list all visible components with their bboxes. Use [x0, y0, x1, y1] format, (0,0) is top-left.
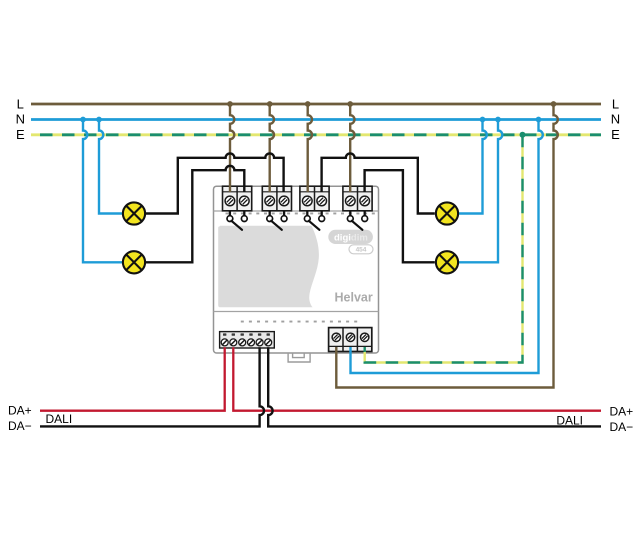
module U1 DIN clip: [288, 353, 310, 362]
terminal block TB4: [343, 186, 372, 211]
wire earth feed yellow base (E right to module input): [365, 135, 523, 363]
module U1 body: [214, 186, 379, 353]
wire black switched D (TB4 to lamp LB2): [365, 170, 435, 262]
wire DALI black DA- right: [268, 347, 601, 426]
svg-text:N: N: [16, 112, 25, 127]
wire earth feed green dashes: [365, 135, 523, 363]
wire blue left A (N to lamp LA2): [83, 120, 123, 263]
terminal block TB3: [300, 186, 329, 211]
wire E bus (green dashes): [31, 133, 601, 136]
svg-text:L: L: [612, 96, 619, 111]
svg-text:DALI: DALI: [46, 412, 73, 426]
svg-text:digidim: digidim: [334, 233, 368, 244]
lamp LB1: [436, 202, 458, 224]
svg-text:E: E: [611, 127, 620, 142]
wire blue right C (N to lamp LB1): [458, 120, 487, 214]
wire brown drop 4 (L to TB4): [350, 104, 354, 192]
svg-text:DA−: DA−: [610, 420, 634, 434]
junction dot L/brown feed: [551, 101, 557, 107]
wire brown drop 3 (L to TB3): [308, 104, 312, 192]
svg-text:DALI: DALI: [556, 413, 583, 427]
wire brown drop 2 (L to TB2): [270, 104, 274, 192]
junction dot N/blueA: [80, 117, 86, 123]
svg-text:DA−: DA−: [8, 419, 32, 433]
wire blue right D (N to lamp LB2): [458, 120, 502, 263]
relay contact K1: [227, 211, 247, 230]
wire brown mains feed (L right to module input): [336, 104, 558, 388]
wire N bus: [31, 118, 601, 121]
module U1 top vent ticks: [226, 213, 375, 215]
wire black switched C (TB3 to lamp LB1): [322, 153, 435, 213]
svg-text:N: N: [611, 112, 620, 127]
wire black switched A (lamp LA1 to TB2): [146, 153, 284, 213]
svg-text:Helvar: Helvar: [335, 291, 373, 305]
module U1 454 badge: [349, 245, 373, 254]
junction dot E/earth feed: [520, 132, 526, 138]
junction dot N/blueB: [96, 117, 102, 123]
terminal block DALI bottom-left: [220, 332, 275, 348]
svg-text:454: 454: [356, 247, 367, 254]
lamp LA2: [123, 251, 145, 273]
junction dot L/drop1: [227, 101, 233, 107]
terminal block TB2: [262, 186, 291, 211]
module U1 digidim logo pill: [328, 230, 373, 244]
svg-text:E: E: [16, 127, 25, 142]
module U1 upper section line: [214, 210, 379, 212]
junction dot L/drop4: [347, 101, 353, 107]
relay contact K2: [267, 211, 287, 230]
wire blue mains feed (N right to module input): [351, 120, 543, 374]
junction dot N/blueD: [495, 117, 501, 123]
junction dot N/blueC: [480, 117, 486, 123]
relay contact K4: [347, 211, 367, 230]
wire black switched B (lamp LA2 to TB1): [146, 166, 245, 262]
wire brown drop 1 (L to TB1): [230, 104, 234, 192]
terminal block mains bottom-right: [329, 328, 372, 352]
svg-text:DA+: DA+: [610, 404, 634, 418]
wire DALI red DA+ left: [40, 347, 225, 410]
svg-text:DA+: DA+: [8, 403, 32, 417]
wire blue left B (N to lamp LA1): [99, 120, 123, 214]
junction dot L/drop3: [305, 101, 311, 107]
relay contact K3: [304, 211, 324, 230]
wire DALI black DA- left: [40, 347, 264, 426]
wire DALI red DA+ right: [233, 347, 601, 410]
lamp LB2: [436, 251, 458, 273]
lamp LA1: [123, 202, 145, 224]
svg-text:L: L: [17, 96, 24, 111]
wire E bus (yellow base): [31, 133, 601, 136]
terminal block TB1: [223, 186, 252, 211]
module U1 gray wave panel: [218, 226, 319, 307]
junction dot N/blue feed: [536, 117, 542, 123]
wire L bus: [31, 103, 601, 106]
junction dot L/drop2: [267, 101, 273, 107]
module U1 bottom vent ticks: [241, 321, 357, 323]
module U1 lower section line: [214, 311, 379, 313]
